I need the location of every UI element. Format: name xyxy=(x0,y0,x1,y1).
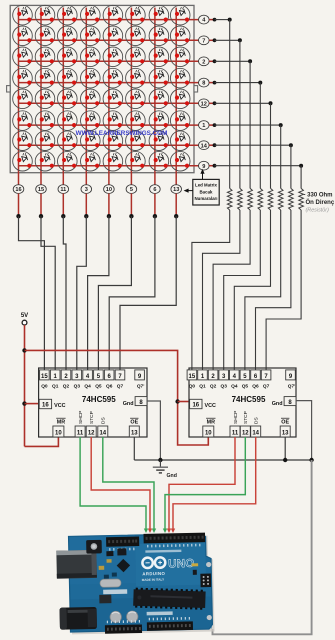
svg-text:14: 14 xyxy=(99,431,106,437)
svg-text:16: 16 xyxy=(192,403,199,409)
svg-text:12: 12 xyxy=(201,101,207,107)
svg-text:Q3: Q3 xyxy=(74,383,81,389)
pin 13 (OE) of U2 xyxy=(280,418,290,437)
LED row6 col6 xyxy=(126,111,146,131)
LED row2 col6 xyxy=(126,26,146,46)
svg-text:STCP: STCP xyxy=(243,411,249,424)
svg-text:OE: OE xyxy=(281,419,289,425)
svg-text:Q2: Q2 xyxy=(63,383,70,389)
LED row3 col8 xyxy=(170,47,190,67)
pin 12 (STCP) of U1 xyxy=(86,411,96,437)
svg-text:MR: MR xyxy=(207,419,215,425)
LED row8 col5 xyxy=(103,151,123,171)
wire: branch to chip2 VCC pin16 xyxy=(178,401,190,403)
LED row5 col7 xyxy=(149,89,169,109)
pin 3 (Q3) of U1 xyxy=(72,370,82,390)
resistor 330 Ohm #7 xyxy=(289,188,294,210)
svg-text:VCC: VCC xyxy=(54,403,65,409)
pin 11 (SHCP) of U2 xyxy=(230,411,240,437)
Arduino analog header xyxy=(147,621,193,630)
LED row4 col5 xyxy=(103,68,123,88)
matrix bottom pin 6 xyxy=(150,173,161,219)
wire: resistor 1 to 74HC595 #2 pin Q0 xyxy=(192,210,230,370)
node: chip2 VCC branch xyxy=(175,399,179,403)
svg-text:Gnd: Gnd xyxy=(167,473,177,479)
wire: chip1 GND pin8 drop xyxy=(147,401,160,460)
LED row5 col5 xyxy=(103,89,123,109)
LED row3 col6 xyxy=(126,47,146,67)
LED row3 col1 xyxy=(13,47,33,67)
svg-text:MADE IN ITALY: MADE IN ITALY xyxy=(142,577,165,581)
LED row7 col2 xyxy=(35,131,55,151)
node: ground junction right xyxy=(309,458,313,462)
LED row8 col1 xyxy=(13,151,33,171)
LED row5 col3 xyxy=(58,89,78,109)
LED row2 col2 xyxy=(35,26,55,46)
pin 14 (DS) of U1 xyxy=(98,417,108,437)
svg-text:9: 9 xyxy=(202,164,205,170)
wire: resistor 3 to 74HC595 #2 pin Q2 xyxy=(213,210,250,370)
node: chip1 VCC branch xyxy=(22,401,26,405)
LED row7 col5 xyxy=(103,131,123,151)
svg-text:3: 3 xyxy=(85,187,88,193)
matrix right pin 8 xyxy=(199,78,263,87)
Arduino digital header left xyxy=(106,537,139,547)
pin 12 (STCP) of U2 xyxy=(240,411,250,437)
pin 11 (SHCP) of U1 xyxy=(75,411,85,437)
wire: chip1 STCP pin12 to Arduino (red) xyxy=(91,437,152,533)
led matrix body outline xyxy=(7,5,198,172)
svg-text:Q4: Q4 xyxy=(84,383,91,389)
Arduino logo xyxy=(142,557,165,568)
LED row4 col4 xyxy=(81,68,101,88)
svg-text:10: 10 xyxy=(205,431,212,437)
matrix bottom pin 15 xyxy=(36,173,47,219)
matrix right pin 9 xyxy=(199,161,304,170)
LED row7 col6 xyxy=(126,131,146,151)
LED row4 col2 xyxy=(35,68,55,88)
LED row5 col1 xyxy=(13,89,33,109)
svg-text:11: 11 xyxy=(77,431,84,437)
LED row8 col8 xyxy=(170,151,190,171)
wire: chip1 OE pin13 to ground rail xyxy=(133,437,135,460)
LED row4 col7 xyxy=(149,68,169,88)
svg-text:Bacak: Bacak xyxy=(200,189,213,194)
Arduino crystal oscillator xyxy=(100,579,121,587)
pin 8 (GND) of U1 xyxy=(123,397,147,407)
LED row4 col3 xyxy=(58,68,78,88)
svg-text:Q3: Q3 xyxy=(220,383,227,389)
wire: matrix row 1 (cathode bus) xyxy=(19,19,199,21)
svg-text:Q5: Q5 xyxy=(242,383,249,389)
wire: matrix column 3 (anode bus) xyxy=(62,8,64,173)
LED row6 col4 xyxy=(81,111,101,131)
svg-text:7: 7 xyxy=(202,38,205,44)
svg-text:Q6: Q6 xyxy=(106,383,113,389)
pin 5 (Q5) of U1 xyxy=(94,370,104,390)
LED row7 col8 xyxy=(170,131,190,151)
svg-text:5: 5 xyxy=(130,187,133,193)
wire: matrix column 1 (anode bus) xyxy=(18,8,20,173)
svg-text:Q0: Q0 xyxy=(189,383,196,389)
Arduino power header xyxy=(105,624,142,633)
svg-text:- 330 Ohm: - 330 Ohm xyxy=(304,192,333,198)
pin 9 (Q7') of U1 xyxy=(135,370,145,390)
pin 6 (Q6) of U1 xyxy=(104,370,114,390)
wire: matrix row 2 (cathode bus) xyxy=(19,39,199,41)
wire: chip2 DS pin14 to Arduino (red) xyxy=(171,437,256,533)
LED row1 col5 xyxy=(103,5,123,25)
wire: chip2 OE pin13 to ground rail xyxy=(284,437,286,460)
wire: matrix row 6 (cathode bus) xyxy=(19,124,199,126)
LED row6 col2 xyxy=(35,111,55,131)
svg-text:13: 13 xyxy=(282,431,289,437)
pin 6 (Q6) of U2 xyxy=(251,370,261,390)
matrix right pin 4 xyxy=(199,15,232,24)
svg-text:DS: DS xyxy=(254,417,260,424)
wire: 5V top rail to chip2 xyxy=(25,350,209,445)
wire: matrix pin 10 to 74HC595 #1 pin Q4 xyxy=(88,216,109,370)
matrix right pin 12 xyxy=(199,99,273,108)
LED row6 col8 xyxy=(170,111,190,131)
LED row2 col4 xyxy=(81,26,101,46)
wire: matrix row pin 4 to resistor xyxy=(229,20,231,189)
LED row5 col4 xyxy=(81,89,101,109)
wire: ground rail to Arduino GND xyxy=(213,460,312,634)
node: 5V rail branch to top rail xyxy=(22,348,26,352)
resistor 330 Ohm #8 xyxy=(299,188,304,210)
svg-text:2: 2 xyxy=(202,59,205,65)
svg-text:1: 1 xyxy=(202,123,205,129)
pin 15 (Q0) of U1 xyxy=(40,370,50,390)
LED row8 col4 xyxy=(81,151,101,171)
LED row5 col2 xyxy=(35,89,55,109)
svg-text:12: 12 xyxy=(88,431,95,437)
LED row3 col5 xyxy=(103,47,123,67)
wire: chip2 GND pin8 drop xyxy=(296,401,312,460)
node: ground junction chip1 xyxy=(158,458,162,462)
wire: matrix row 4 (cathode bus) xyxy=(19,82,199,84)
svg-text:Led Matrix: Led Matrix xyxy=(195,183,218,188)
node: ground junction chip2 OE xyxy=(283,458,287,462)
svg-text:Ön Direnç: Ön Direnç xyxy=(306,199,335,206)
pin 4 (Q4) of U1 xyxy=(83,370,93,390)
wire: resistor 7 to 74HC595 #2 pin Q6 xyxy=(256,210,291,370)
Arduino USB-serial chip xyxy=(117,559,130,572)
wire: ground rail xyxy=(134,459,311,461)
matrix bottom pin 3 xyxy=(81,173,92,219)
Arduino USB connector xyxy=(56,550,97,579)
Arduino digital header right xyxy=(143,533,205,544)
wire: matrix column 2 (anode bus) xyxy=(40,8,42,173)
LED row1 col7 xyxy=(149,5,169,25)
LED row7 col1 xyxy=(13,131,33,151)
svg-text:8: 8 xyxy=(202,81,205,87)
svg-text:11: 11 xyxy=(60,187,66,193)
LED row8 col6 xyxy=(126,151,146,171)
svg-text:74HC595: 74HC595 xyxy=(82,395,116,404)
svg-text:(Resistör): (Resistör) xyxy=(306,207,330,213)
wire: matrix row pin 1 to resistor xyxy=(280,125,282,188)
svg-text:16: 16 xyxy=(15,187,21,193)
LED row3 col2 xyxy=(35,47,55,67)
pin 14 (DS) of U2 xyxy=(251,417,261,437)
wire: matrix pin 15 to 74HC595 #1 pin Q1 xyxy=(41,216,55,370)
LED row7 col7 xyxy=(149,131,169,151)
svg-text:12: 12 xyxy=(242,431,249,437)
wire: matrix row pin 9 to resistor xyxy=(300,166,302,189)
wire: resistor 4 to 74HC595 #2 pin Q3 xyxy=(224,210,261,370)
LED row4 col1 xyxy=(13,68,33,88)
svg-text:SHCP: SHCP xyxy=(233,411,239,424)
svg-text:Q4: Q4 xyxy=(231,383,238,389)
wire: matrix column 8 (anode bus) xyxy=(175,8,177,173)
wire: matrix row pin 14 to resistor xyxy=(290,145,292,188)
value label: 330 Ohm On Direnc (Resistor) xyxy=(304,192,335,213)
svg-text:13: 13 xyxy=(173,187,179,193)
svg-text:DS: DS xyxy=(101,417,107,424)
svg-text:Q1: Q1 xyxy=(52,383,59,389)
resistor 330 Ohm #1 xyxy=(227,188,232,210)
matrix right pin 14 xyxy=(199,141,293,150)
LED row1 col2 xyxy=(35,5,55,25)
LED row6 col3 xyxy=(58,111,78,131)
pin 1 (Q1) of U2 xyxy=(198,370,208,390)
svg-text:11: 11 xyxy=(232,431,239,437)
pin 16 (VCC) of U1 xyxy=(39,399,65,409)
svg-text:10: 10 xyxy=(55,431,62,437)
pin 4 (Q4) of U2 xyxy=(230,370,240,390)
svg-text:Q5: Q5 xyxy=(95,383,102,389)
svg-text:SHCP: SHCP xyxy=(78,411,84,424)
Arduino ATmega328 DIP xyxy=(133,588,206,610)
LED row3 col3 xyxy=(58,47,78,67)
wire: chip1 SHCP pin11 to Arduino (green) xyxy=(80,437,148,533)
LED row8 col3 xyxy=(58,151,78,171)
svg-text:Q7': Q7' xyxy=(288,383,296,389)
svg-text:WWW.LEARNERSWINGS.COM: WWW.LEARNERSWINGS.COM xyxy=(76,130,168,137)
matrix bottom pin 11 xyxy=(58,173,69,219)
svg-text:Numaraları: Numaraları xyxy=(195,196,218,201)
svg-text:UNO: UNO xyxy=(168,558,195,571)
pin 15 (Q0) of U2 xyxy=(187,370,197,390)
svg-text:Q1: Q1 xyxy=(199,383,206,389)
svg-text:ARDUINO: ARDUINO xyxy=(142,571,165,576)
svg-text:6: 6 xyxy=(153,187,156,193)
LED row2 col3 xyxy=(58,26,78,46)
svg-text:14: 14 xyxy=(201,143,208,149)
matrix bottom pin 13 xyxy=(171,173,182,219)
pin 10 (MR) of U2 xyxy=(203,418,216,437)
svg-text:74HC595: 74HC595 xyxy=(232,395,266,404)
wire: matrix pin 11 to 74HC595 #1 pin Q2 xyxy=(63,216,66,370)
matrix right pin 1 xyxy=(199,121,283,130)
wire: matrix row 5 (cathode bus) xyxy=(19,102,199,104)
wire: matrix column 6 (anode bus) xyxy=(130,8,132,173)
svg-text:Gnd: Gnd xyxy=(123,401,134,407)
wire: matrix row pin 2 to resistor xyxy=(249,61,251,188)
wire: matrix row pin 7 to resistor xyxy=(239,40,241,188)
ground symbol xyxy=(153,460,177,479)
svg-text:Q7': Q7' xyxy=(137,383,145,389)
svg-text:OE: OE xyxy=(130,419,138,425)
svg-text:MR: MR xyxy=(57,419,65,425)
svg-text:10: 10 xyxy=(106,187,112,193)
svg-text:15: 15 xyxy=(41,374,48,380)
wire: matrix column 7 (anode bus) xyxy=(154,8,156,173)
LED row1 col8 xyxy=(170,5,190,25)
LED row1 col6 xyxy=(126,5,146,25)
pin 8 (GND) of U2 xyxy=(272,397,296,407)
LED row7 col3 xyxy=(58,131,78,151)
LED row6 col5 xyxy=(103,111,123,131)
LED row8 col2 xyxy=(35,151,55,171)
LED row4 col6 xyxy=(126,68,146,88)
svg-text:Gnd: Gnd xyxy=(272,401,283,407)
pin 9 (Q7') of U2 xyxy=(286,370,296,390)
wire: resistor 8 to 74HC595 #2 pin Q7 xyxy=(266,210,301,370)
pin 7 (Q7) of U1 xyxy=(115,370,125,390)
wire: matrix row pin 12 to resistor xyxy=(270,103,272,188)
svg-text:16: 16 xyxy=(42,403,49,409)
svg-text:15: 15 xyxy=(38,187,44,193)
wire: chip1 DS pin14 to Arduino (green) xyxy=(103,437,156,533)
wire: resistor 5 to 74HC595 #2 pin Q4 xyxy=(234,210,270,370)
wire: 5V vertical rail xyxy=(24,325,26,446)
pin 13 (OE) of U1 xyxy=(129,418,139,437)
wire: matrix row 7 (cathode bus) xyxy=(19,144,199,146)
power terminal 5V xyxy=(21,313,28,325)
pin 16 (VCC) of U2 xyxy=(190,399,216,409)
svg-text:5V: 5V xyxy=(21,313,28,319)
matrix bottom pin 16 xyxy=(13,173,24,219)
wire: resistor 2 to 74HC595 #2 pin Q1 xyxy=(203,210,240,370)
wire: matrix pin 6 to 74HC595 #1 pin Q6 xyxy=(109,216,155,370)
wire: matrix row 8 (cathode bus) xyxy=(19,165,199,167)
wire: matrix pin 13 to 74HC595 #1 pin Q7 xyxy=(120,216,176,370)
LED row2 col8 xyxy=(170,26,190,46)
LED row7 col4 xyxy=(81,131,101,151)
resistor 330 Ohm #3 xyxy=(248,188,253,210)
pin 2 (Q2) of U2 xyxy=(208,370,218,390)
wire: matrix column 4 (anode bus) xyxy=(85,8,87,173)
LED row3 col4 xyxy=(81,47,101,67)
pin 2 (Q2) of U1 xyxy=(61,370,71,390)
LED row1 col4 xyxy=(81,5,101,25)
resistor 330 Ohm #4 xyxy=(258,188,263,210)
LED row6 col1 xyxy=(13,111,33,131)
Arduino reset button xyxy=(86,540,102,554)
matrix bottom pin 10 xyxy=(104,173,115,219)
op IC U2: 74HC595 shift register xyxy=(189,368,296,437)
LED row3 col7 xyxy=(149,47,169,67)
pin 1 (Q1) of U1 xyxy=(50,370,60,390)
resistor 330 Ohm #6 xyxy=(278,188,283,210)
wire: matrix column 5 (anode bus) xyxy=(108,8,110,173)
wire: matrix pin 3 to 74HC595 #1 pin Q3 xyxy=(77,216,87,370)
wire: 5V to chip1 MR pin10 xyxy=(25,438,59,447)
Arduino ICSP header xyxy=(200,574,211,588)
wire: matrix pin 16 to 74HC595 #1 pin Q0 xyxy=(19,216,45,370)
annotation box: Led Matrix Bacak Numaralari xyxy=(184,169,220,205)
LED row2 col5 xyxy=(103,26,123,46)
LED row8 col7 xyxy=(149,151,169,171)
resistor 330 Ohm #2 xyxy=(238,188,243,210)
svg-text:Q6: Q6 xyxy=(252,383,259,389)
wire: chip2 STCP pin12 to Arduino (green) xyxy=(163,437,246,533)
wire: chip2 SHCP pin11 to Arduino (red) xyxy=(167,437,235,533)
LED row2 col1 xyxy=(13,26,33,46)
Arduino electrolytic capacitors xyxy=(110,611,138,623)
LED row2 col7 xyxy=(149,26,169,46)
pin 7 (Q7) of U2 xyxy=(261,370,271,390)
svg-text:Q0: Q0 xyxy=(41,383,48,389)
LED row5 col8 xyxy=(170,89,190,109)
svg-text:Q7: Q7 xyxy=(117,383,124,389)
LED row5 col6 xyxy=(126,89,146,109)
wire: resistor 6 to 74HC595 #2 pin Q5 xyxy=(245,210,281,370)
pin 5 (Q5) of U2 xyxy=(240,370,250,390)
svg-text:13: 13 xyxy=(131,431,138,437)
wire: matrix row pin 8 to resistor xyxy=(259,83,261,189)
op IC U1: 74HC595 shift register xyxy=(39,368,147,437)
svg-text:Q2: Q2 xyxy=(210,383,217,389)
LED row1 col1 xyxy=(13,5,33,25)
svg-text:VCC: VCC xyxy=(205,403,216,409)
wire: matrix pin 5 to 74HC595 #1 pin Q5 xyxy=(98,216,131,370)
resistor 330 Ohm #5 xyxy=(268,188,273,210)
Arduino power jack xyxy=(60,607,97,630)
LED row4 col8 xyxy=(170,68,190,88)
pin 10 (MR) of U1 xyxy=(53,418,66,437)
svg-text:14: 14 xyxy=(252,431,259,437)
LED row1 col3 xyxy=(58,5,78,25)
svg-text:STCP: STCP xyxy=(89,411,95,424)
svg-text:Q7: Q7 xyxy=(263,383,270,389)
LED row6 col7 xyxy=(149,111,169,131)
matrix right pin 2 xyxy=(199,57,253,66)
Arduino UNO board xyxy=(56,532,215,634)
matrix bottom pin 5 xyxy=(126,173,137,219)
wire: matrix row 3 (cathode bus) xyxy=(19,60,199,62)
svg-text:15: 15 xyxy=(189,374,196,380)
pin 3 (Q3) of U2 xyxy=(219,370,229,390)
matrix right pin 7 xyxy=(199,36,242,45)
wire: branch to chip1 VCC pin16 xyxy=(25,403,39,405)
